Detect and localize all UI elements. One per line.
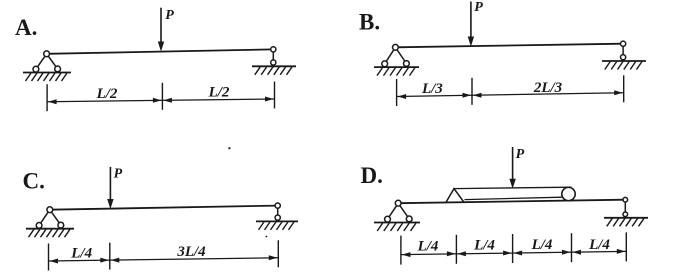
B-right ground hatching [605,62,611,70]
B-right link bar [622,44,624,58]
scan speck above C right tick [266,236,268,238]
svg-text:L/2: L/2 [96,86,118,102]
B-left ground hatching [377,68,383,76]
A-left ground hatching [26,73,32,81]
dimension tick A1 [46,84,48,111]
dimension tick B1 [396,79,398,106]
dimension line B [397,93,624,97]
D top-bar support triangle [446,189,464,203]
D-right ground hatching [607,218,613,226]
dimension tick D3 [512,234,514,263]
dimension arrows at tick A1 [48,99,57,104]
B-right upper hinge circle [621,41,626,46]
svg-text:D.: D. [361,163,383,188]
dimension tick D5 [625,232,627,261]
dimension arrows at tick B2 [463,93,472,98]
svg-text:A.: A. [15,15,37,40]
load B arrow [470,2,472,40]
dimension arrows at tick B1 [398,94,407,99]
C-left ground line [26,228,74,230]
B-left pin-support legs [385,47,396,64]
dimension arrows at tick D2 [447,251,456,256]
dimension line A [47,99,274,102]
load C arrow [109,167,111,202]
dimension tick A3 [274,82,276,109]
svg-text:C.: C. [23,169,45,194]
dimension tick D1 [400,236,402,265]
D-right link bar [624,200,626,215]
C-right link bar [277,206,279,218]
A-left pin-support legs [36,54,47,69]
beam A [47,49,274,53]
scan speck near C/D gap [228,147,230,149]
beam B [395,44,623,48]
D-right ground line [604,217,648,219]
A-right ground line [252,65,296,67]
svg-text:L/4: L/4 [70,246,92,262]
dimension arrows at tick D5 [617,249,626,254]
A-right ground hatching [255,67,260,75]
dimension arrows at tick C1 [50,259,59,264]
A-right lower hinge circle [271,60,276,65]
C-left pin-support hinge circle [47,207,53,213]
A-right upper hinge circle [271,47,276,52]
dimension arrows at tick A3 [265,97,274,102]
dimension tick C3 [277,240,279,267]
dimension arrows at tick C3 [269,255,278,260]
C-right upper hinge circle [275,203,280,208]
C-left pin-support roller circles [36,223,42,229]
D-left pin-support hinge circle [395,200,401,206]
C-right ground line [256,220,298,222]
svg-text:L/4: L/4 [417,239,439,255]
load D arrow [512,147,514,182]
C-right lower hinge circle [275,215,280,220]
D-right upper hinge circle [623,197,628,202]
dimension tick D2 [455,235,457,264]
svg-text:L/4: L/4 [473,238,495,254]
svg-text:3L/4: 3L/4 [176,244,206,260]
D top-bar outline [454,187,572,199]
svg-text:2L/3: 2L/3 [533,80,563,96]
A-right link bar [272,49,274,62]
svg-text:P: P [516,147,525,162]
B-left pin-support roller circles [382,61,388,67]
dimension tick A2 [161,83,163,110]
D-left ground line [374,222,420,224]
load A arrow [160,8,162,45]
A-left pin-support roller circles [33,66,39,72]
svg-text:P: P [474,0,483,15]
D top-bar roller circle [562,187,575,200]
dimension arrows at tick D4 [562,250,571,255]
dimension line C [49,258,279,261]
svg-text:L/3: L/3 [421,81,443,97]
dimension tick B2 [471,78,473,105]
svg-text:B.: B. [359,10,380,35]
svg-text:P: P [114,167,123,182]
B-right lower hinge circle [621,55,626,60]
D-right lower hinge circle [623,212,628,217]
D-left pin-support roller circles [385,216,391,222]
D-left pin-support legs [388,203,399,219]
C-right ground hatching [259,222,265,230]
dimension tick C1 [48,244,50,271]
A-left pin-support hinge circle [44,51,50,57]
dimension arrows at tick C2 [100,258,109,263]
B-left ground line [374,66,419,68]
svg-text:L/2: L/2 [208,85,230,101]
dimension arrows at tick D3 [503,251,512,256]
C-left ground hatching [29,229,35,237]
dimension arrows at tick A2 [153,98,162,103]
B-right ground line [602,60,646,62]
B-left pin-support hinge circle [393,44,399,50]
svg-text:P: P [165,8,174,23]
dimension tick D4 [571,233,573,262]
A-left ground line [23,72,71,74]
dimension arrows at tick D1 [402,252,411,257]
C-left pin-support legs [39,210,50,226]
dimension arrows at tick B3 [614,90,623,95]
beam D [398,200,625,204]
dimension tick B3 [623,75,625,102]
svg-text:L/4: L/4 [588,237,610,253]
beam C [50,206,278,210]
D-left ground hatching [377,223,383,231]
dimension line D [401,251,626,254]
dimension tick C2 [109,243,111,270]
svg-text:L/4: L/4 [531,237,553,253]
